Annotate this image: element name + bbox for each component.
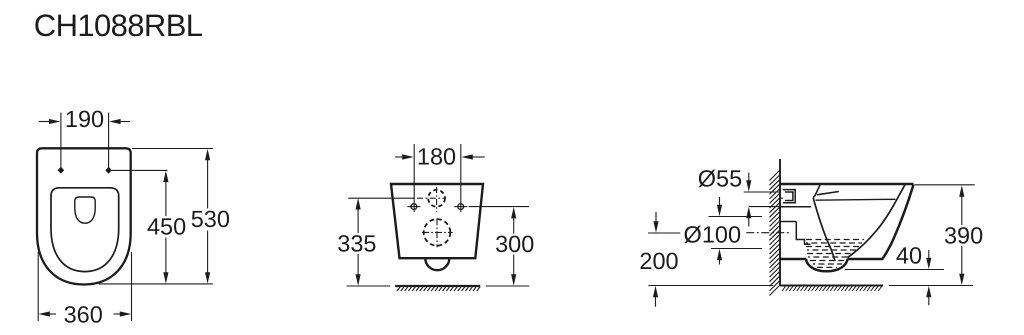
toilet top edge (780, 183, 914, 186)
dim 530 line with arrows (207, 159, 209, 209)
outlet circle crosshair horizontal (422, 231, 453, 233)
dim 40 up arrow (928, 296, 930, 306)
flush nozzle line (817, 192, 839, 195)
svg-text:335: 335 (337, 230, 376, 256)
dim 190 extension line right (108, 113, 110, 171)
flush opening shape (75, 197, 95, 223)
mounting hole left cross (407, 206, 420, 208)
toilet body rear outline (391, 184, 483, 258)
dia100 top extension line (709, 216, 763, 218)
dim 190 extension line left (60, 113, 62, 171)
ground hatch strokes (397, 287, 480, 291)
dim 190 left arrow (39, 121, 51, 123)
svg-text:530: 530 (191, 206, 230, 232)
dia100 bottom extension line (711, 248, 762, 250)
inlet circle dia 55 (dashed) (428, 190, 445, 207)
dim 530 top extension line (132, 148, 213, 150)
mounting hole right circle (458, 204, 464, 210)
right hole extension line (300 top) (469, 206, 530, 208)
bowl back (funnel left) wall (813, 198, 835, 261)
mounting hole left circle (411, 204, 417, 210)
dim 180 extension line left (413, 144, 415, 212)
dim 450/530 bottom extension line (99, 283, 213, 285)
shelf line under inlet (780, 206, 811, 208)
dim 360 extension line right (131, 252, 133, 321)
trap upper line (780, 221, 796, 223)
svg-text:Ø55: Ø55 (698, 166, 742, 192)
svg-text:300: 300 (495, 231, 534, 257)
svg-text:200: 200 (639, 248, 678, 274)
dim 360 extension line left (37, 252, 39, 321)
svg-text:CH1088RBL: CH1088RBL (34, 8, 203, 43)
dim 360 right arrow (114, 313, 122, 315)
inlet center extension line (335 top) (348, 197, 414, 199)
dia55 up arrow (748, 217, 750, 227)
dim 450 line with arrows (165, 181, 167, 217)
inlet spud inner box (785, 192, 793, 201)
dia55 bottom extension line (749, 206, 780, 208)
outlet circle crosshair vertical (436, 218, 438, 247)
wall hatch strokes (770, 170, 781, 296)
svg-text:450: 450 (147, 214, 186, 240)
bowl inner sweep wall (848, 185, 906, 258)
toilet bottom edge left part (780, 258, 806, 261)
seat outline (51, 188, 119, 272)
dim 180 extension line right (460, 144, 462, 212)
inlet spud outer box (783, 190, 795, 203)
dia100 up arrow (719, 259, 721, 265)
dim 390 top extension line (915, 184, 975, 186)
dim 40 extension line (845, 269, 944, 271)
wall line (779, 159, 781, 286)
svg-text:390: 390 (944, 223, 983, 249)
dim 335 bottom extension dash (347, 285, 391, 287)
dim 190 right arrow (119, 121, 130, 123)
ground line (395, 285, 480, 287)
dim 200 up arrow (655, 296, 657, 307)
dim 300 bottom extension dash (486, 285, 529, 287)
svg-text:360: 360 (64, 302, 103, 328)
dim 180 left arrow (395, 156, 404, 158)
toilet front face (882, 185, 914, 260)
water dashed rows (806, 240, 864, 268)
mounting hole right cross (454, 206, 467, 208)
dia55 down arrow (748, 173, 750, 183)
dim 335 line with arrows (357, 208, 359, 233)
dim 200 floor extension line (648, 285, 773, 287)
dia100 down arrow (719, 197, 721, 207)
mounting hole right (diamond) (105, 167, 112, 174)
dim 200 down arrow (655, 212, 657, 223)
svg-text:Ø100: Ø100 (684, 222, 742, 248)
outlet circle dia 100 (dashed) (424, 219, 451, 246)
dim 390 bottom extension line (889, 285, 973, 287)
mounting hole left (diamond) (58, 167, 65, 174)
dim 390 line with arrows (961, 195, 963, 225)
floor hatch strokes (782, 286, 882, 291)
rim back line (813, 185, 820, 198)
dim 180 right arrow (471, 156, 485, 158)
inlet circle crosshair vertical (436, 187, 438, 212)
bowl underside U (806, 259, 848, 272)
dia55 top extension line (744, 191, 780, 193)
svg-text:40: 40 (896, 243, 922, 269)
dim 40 down arrow (928, 250, 930, 260)
dia100 centerline dash-dot (746, 232, 789, 234)
bowl rim top line (816, 198, 896, 201)
toilet bottom edge right part (848, 258, 883, 261)
svg-text:190: 190 (65, 106, 104, 132)
outlet bump semicircle (425, 258, 449, 270)
floor line under toilet (780, 285, 883, 287)
svg-text:180: 180 (417, 144, 456, 170)
dim 360 left arrow (49, 313, 57, 315)
dim 200 top line (outlet center) (648, 232, 680, 234)
toilet outer body (plan) (37, 148, 131, 284)
trap staircase (796, 222, 810, 245)
inlet spud wall tick (779, 197, 783, 199)
dim 300 line with arrows (513, 217, 515, 234)
dim 450 top extension line (111, 169, 168, 171)
